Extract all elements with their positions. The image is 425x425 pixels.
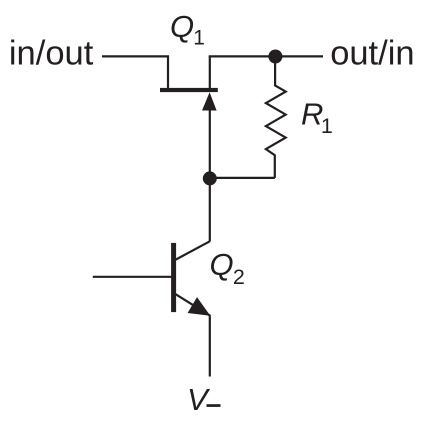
node middle junction: [203, 171, 217, 185]
wire R1 bottom to middle node: [210, 177, 275, 179]
wire Q1 source to middle node: [209, 105, 211, 178]
node top junction: [268, 50, 282, 64]
wire Q2 base: [93, 276, 173, 278]
svg-text:V: V: [187, 382, 211, 417]
wire in/out to Q1 gate: [102, 56, 168, 88]
resistor R1: [266, 57, 286, 178]
Q2 emitter arrowhead: [188, 297, 211, 316]
svg-text:Q: Q: [210, 247, 234, 282]
Q2 collector diagonal: [175, 241, 210, 260]
Q1 drain lead: [209, 56, 211, 88]
svg-text:2: 2: [233, 265, 245, 289]
transistor Q2: [171, 241, 210, 315]
svg-text:in/out: in/out: [9, 35, 94, 73]
svg-text:out/in: out/in: [330, 35, 414, 73]
Q2 base bar: [171, 243, 176, 312]
wire Q2 emitter to V-: [209, 316, 211, 377]
Q1 gate bar: [160, 88, 218, 92]
wire Q1 drain to out/in rail: [209, 55, 323, 57]
Q2 emitter diagonal: [175, 294, 210, 316]
svg-text:1: 1: [321, 114, 333, 138]
svg-text:Q: Q: [170, 9, 194, 44]
transistor Q1: [160, 56, 218, 110]
svg-text:1: 1: [193, 27, 205, 50]
Q1 source arrow: [202, 92, 217, 110]
wire middle node to Q2 collector: [209, 178, 211, 241]
